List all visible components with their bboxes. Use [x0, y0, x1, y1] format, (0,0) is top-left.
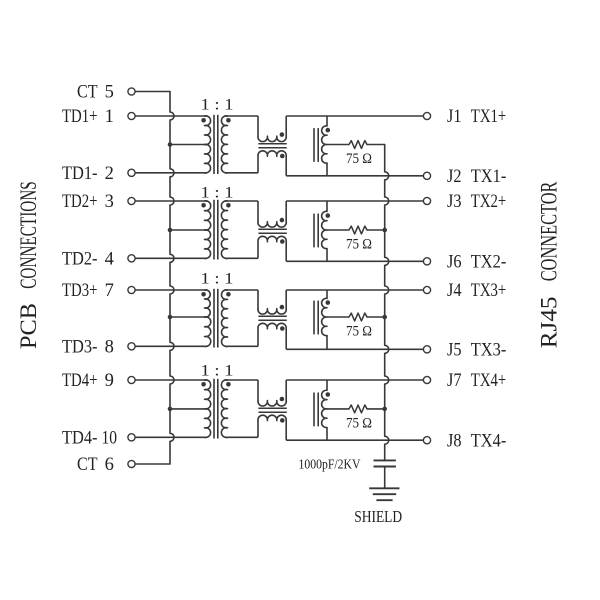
- choke CM3 bottom polarity dot: [280, 326, 285, 331]
- wire CT bus to T1 primary tap: [170, 144, 205, 146]
- terminal TD3+: [128, 286, 135, 293]
- svg-text:TX4+: TX4+: [471, 371, 507, 391]
- terminal TD1-: [128, 169, 135, 176]
- svg-text:SHIELD: SHIELD: [354, 507, 402, 526]
- output winding L2 coil: [322, 211, 327, 248]
- wire CT bus to T3 primary tap: [170, 316, 205, 318]
- svg-text:75 Ω: 75 Ω: [346, 237, 372, 253]
- svg-text:TX3+: TX3+: [471, 281, 507, 301]
- wire L3 tap to R3: [327, 316, 349, 318]
- resistor R2 75 ohm: [349, 226, 367, 234]
- wire R3 to termination bus: [367, 316, 385, 318]
- T2 secondary polarity dot: [226, 203, 231, 208]
- wire R4 to termination bus: [367, 408, 385, 410]
- svg-text:J5: J5: [447, 341, 462, 361]
- wire TD1- to T1 primary bottom: [135, 172, 207, 174]
- svg-text:9: 9: [105, 371, 114, 391]
- common-mode choke CM3: [257, 290, 259, 309]
- wire choke to J TX3+ terminal: [286, 289, 423, 291]
- terminal TX2-: [423, 258, 430, 265]
- terminal TD3-: [128, 343, 135, 350]
- choke CM2 bottom polarity dot: [280, 239, 285, 244]
- wire L1 tap to R1: [327, 144, 349, 146]
- termination bus vertical with hops: [385, 145, 389, 461]
- T3 primary polarity dot: [201, 292, 206, 297]
- junction: CT bus to T2 center tap: [168, 228, 173, 233]
- svg-text:J8: J8: [447, 431, 462, 451]
- svg-text:4: 4: [105, 250, 114, 270]
- svg-text:TD3+: TD3+: [62, 281, 98, 301]
- svg-text:J2: J2: [447, 167, 462, 187]
- wire choke to J TX1- terminal: [286, 175, 423, 177]
- svg-text:1 : 1: 1 : 1: [201, 362, 234, 379]
- wire T2 secondary bottom to choke: [225, 257, 258, 259]
- svg-text:J7: J7: [447, 371, 462, 391]
- wire T4 secondary top to choke: [225, 379, 258, 381]
- transformer T4 primary winding lower half: [205, 409, 211, 438]
- svg-text:1 : 1: 1 : 1: [201, 97, 234, 114]
- transformer T4 primary winding upper half: [205, 380, 211, 409]
- wire CT bus to T2 primary tap: [170, 229, 205, 231]
- common-mode choke CM2: [257, 201, 259, 222]
- transformer T3 core: [213, 289, 215, 348]
- wire TD2+ to T2 primary top: [135, 200, 207, 202]
- terminal TD1+: [128, 112, 135, 119]
- svg-text:TX3-: TX3-: [471, 341, 507, 361]
- choke CM1 top winding: [258, 136, 286, 141]
- wire TD3+ to T3 primary top: [135, 289, 207, 291]
- resistor R4 75 ohm: [349, 405, 367, 413]
- choke CM1 top polarity dot: [280, 132, 285, 137]
- transformer T1 core: [213, 115, 215, 174]
- terminal TX4+: [423, 376, 430, 383]
- output winding L1 coil: [322, 126, 327, 163]
- svg-text:CT: CT: [77, 83, 98, 103]
- choke CM4 bottom polarity dot: [280, 418, 285, 423]
- svg-text:J1: J1: [447, 107, 462, 127]
- svg-text:10: 10: [101, 429, 117, 449]
- wire choke to J TX3- terminal: [286, 348, 423, 350]
- wire choke to J TX2+ terminal: [286, 200, 423, 202]
- choke CM3 top polarity dot: [280, 305, 285, 310]
- resistor R3 75 ohm: [349, 313, 367, 321]
- transformer T2 primary winding lower half: [205, 230, 211, 259]
- choke CM1 core: [258, 143, 286, 145]
- terminal CT 5: [128, 88, 135, 95]
- svg-text:1 : 1: 1 : 1: [201, 271, 234, 288]
- svg-text:TD4-: TD4-: [62, 429, 98, 449]
- svg-text:TX2-: TX2-: [471, 253, 507, 273]
- svg-text:TD3-: TD3-: [62, 338, 98, 358]
- svg-text:TD1-: TD1-: [62, 164, 98, 184]
- svg-text:2: 2: [105, 164, 114, 184]
- wire R2 to termination bus: [367, 229, 385, 231]
- svg-text:TD2-: TD2-: [62, 250, 98, 270]
- transformer T1 secondary winding: [221, 116, 227, 173]
- wire T3 secondary bottom to choke: [225, 345, 258, 347]
- choke CM2 bottom winding: [258, 236, 286, 241]
- T2 primary polarity dot: [201, 203, 206, 208]
- svg-text:J4: J4: [447, 281, 462, 301]
- choke CM4 bottom winding: [258, 415, 286, 420]
- wire L4 tap to R4: [327, 408, 349, 410]
- output winding L3 core: [313, 301, 315, 335]
- choke CM2 top polarity dot: [280, 218, 285, 223]
- terminal CT 6: [128, 460, 135, 467]
- junction: CT bus to T1 center tap: [168, 142, 173, 147]
- wire CT bus to T4 primary tap: [170, 408, 205, 410]
- terminal TX1-: [423, 172, 430, 179]
- output winding L2: [326, 201, 328, 211]
- junction: termination bus to R2: [382, 228, 387, 233]
- output winding L2 core: [313, 214, 315, 248]
- wire R1 to termination bus: [367, 144, 385, 146]
- svg-text:1 : 1: 1 : 1: [201, 185, 234, 202]
- wire T1 secondary bottom to choke: [225, 172, 258, 174]
- transformer T3 primary winding upper half: [205, 290, 211, 317]
- svg-text:8: 8: [105, 338, 114, 358]
- svg-text:TD1+: TD1+: [62, 107, 98, 127]
- T4 primary polarity dot: [201, 382, 206, 387]
- output winding L4: [326, 380, 328, 390]
- output winding L3: [326, 290, 328, 298]
- transformer T2 secondary winding: [221, 201, 227, 259]
- junction: CT bus to T4 center tap: [168, 407, 173, 412]
- choke CM1 bottom polarity dot: [280, 154, 285, 159]
- transformer T4 secondary winding: [221, 380, 227, 438]
- choke CM4 core: [258, 407, 286, 409]
- transformer T2 core: [213, 200, 215, 260]
- svg-text:TX2+: TX2+: [471, 192, 507, 212]
- svg-text:5: 5: [105, 83, 114, 103]
- wire TD1+ to T1 primary top: [135, 115, 207, 117]
- output winding L4 coil: [322, 390, 327, 427]
- svg-text:1: 1: [105, 107, 114, 127]
- terminal TX3+: [423, 286, 430, 293]
- resistor R1 75 ohm: [349, 141, 367, 149]
- wire choke to J TX1+ terminal: [286, 115, 423, 117]
- wire CT6 to bus: [135, 463, 170, 465]
- svg-text:TD2+: TD2+: [62, 192, 98, 212]
- T1 primary polarity dot: [201, 118, 206, 123]
- terminal TX4-: [423, 437, 430, 444]
- wire choke to J TX4- terminal: [286, 439, 423, 441]
- transformer T2 primary winding upper half: [205, 201, 211, 230]
- terminal TX3-: [423, 346, 430, 353]
- transformer T1 primary winding lower half: [205, 144, 211, 173]
- svg-text:75 Ω: 75 Ω: [346, 324, 372, 340]
- wire T1 secondary top to choke: [225, 115, 258, 117]
- choke CM3 bottom winding: [258, 323, 286, 328]
- svg-text:75 Ω: 75 Ω: [346, 151, 372, 167]
- wire TD2- to T2 primary bottom: [135, 257, 207, 259]
- transformer T3 primary winding lower half: [205, 317, 211, 347]
- transformer T1 primary winding upper half: [205, 116, 211, 145]
- svg-text:CONNECTOR: CONNECTOR: [537, 181, 562, 281]
- svg-text:J3: J3: [447, 192, 462, 212]
- junction: termination bus to R4: [382, 407, 387, 412]
- svg-text:TX4-: TX4-: [471, 431, 507, 451]
- wire T3 secondary top to choke: [225, 289, 258, 291]
- common-mode choke CM4: [257, 380, 259, 401]
- terminal TD2+: [128, 197, 135, 204]
- terminal TD4+: [128, 376, 135, 383]
- choke CM4 top polarity dot: [280, 397, 285, 402]
- transformer T3 secondary winding: [222, 290, 228, 347]
- svg-text:TX1-: TX1-: [471, 167, 507, 187]
- output winding L4 polarity dot: [326, 392, 331, 397]
- svg-text:CT: CT: [77, 455, 98, 475]
- choke CM2 core: [258, 228, 286, 230]
- choke CM1 bottom winding: [258, 151, 286, 156]
- svg-text:RJ45: RJ45: [537, 297, 562, 349]
- CT bus vertical with hops: [170, 92, 174, 465]
- svg-text:7: 7: [105, 281, 114, 301]
- junction: termination bus to R3: [382, 315, 387, 320]
- output winding L1 polarity dot: [326, 128, 331, 133]
- terminal TX2+: [423, 197, 430, 204]
- output winding L2 polarity dot: [326, 213, 331, 218]
- wire T4 secondary bottom to choke: [225, 436, 258, 438]
- wire TD4- to T4 primary bottom: [135, 436, 207, 438]
- svg-text:TD4+: TD4+: [62, 371, 98, 391]
- svg-text:6: 6: [105, 455, 114, 475]
- transformer T4 core: [213, 379, 215, 439]
- svg-text:CONNECTIONS: CONNECTIONS: [16, 181, 41, 289]
- wire choke to J TX2- terminal: [286, 260, 423, 262]
- svg-text:1000pF/2KV: 1000pF/2KV: [299, 458, 361, 473]
- wire L2 tap to R2: [327, 229, 349, 231]
- capacitor C1 1000pF/2KV: [374, 459, 396, 461]
- terminal TD2-: [128, 255, 135, 262]
- choke CM3 core: [258, 315, 286, 317]
- output winding L3 coil: [322, 298, 327, 335]
- svg-text:TX1+: TX1+: [471, 107, 507, 127]
- svg-text:75 Ω: 75 Ω: [346, 416, 372, 432]
- output winding L4 core: [313, 393, 315, 427]
- common-mode choke CM1: [257, 116, 259, 136]
- wire TD3- to T3 primary bottom: [135, 345, 207, 347]
- choke CM3 top winding: [258, 309, 286, 314]
- choke CM2 top winding: [258, 222, 286, 227]
- svg-text:PCB: PCB: [16, 303, 41, 349]
- wire T2 secondary top to choke: [225, 200, 258, 202]
- terminal TD4-: [128, 434, 135, 441]
- ground (shield): [369, 487, 399, 489]
- output winding L1 core: [313, 128, 315, 162]
- svg-text:3: 3: [105, 192, 114, 212]
- svg-text:J6: J6: [447, 253, 462, 273]
- choke CM4 top winding: [258, 401, 286, 406]
- T4 secondary polarity dot: [226, 382, 231, 387]
- wire CT5 to bus: [135, 91, 170, 93]
- terminal TX1+: [423, 112, 430, 119]
- output winding L1: [326, 116, 328, 126]
- T1 secondary polarity dot: [226, 118, 231, 123]
- output winding L3 polarity dot: [326, 300, 331, 305]
- wire choke to J TX4+ terminal: [286, 379, 423, 381]
- junction: CT bus to T3 center tap: [168, 315, 173, 320]
- wire capacitor to shield ground: [384, 467, 386, 489]
- wire TD4+ to T4 primary top: [135, 379, 207, 381]
- T3 secondary polarity dot: [226, 292, 231, 297]
